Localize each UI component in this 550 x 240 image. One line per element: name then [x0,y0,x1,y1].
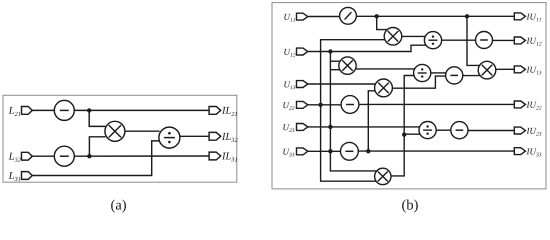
wire U33 to negate4 [308,150,341,152]
caption (a) [111,199,126,212]
divider U-b6 [414,64,431,81]
wire branch to multiplier2 in2 [330,69,339,71]
node A2 junction [87,154,91,158]
multiplier U-b9 [375,79,393,97]
wire subtractor1 out to multiplier4 in2 [463,75,480,77]
wire U13 to multiplier3 in1 [308,83,376,85]
multiplier U-a3 [105,121,125,141]
label IU23 [526,128,541,136]
port U11 [297,13,308,20]
label L21 [9,107,21,116]
port IU13 [514,66,525,73]
subtractor U-b7 [446,67,463,84]
wire negate3 out to IU23 [468,130,514,132]
port U12 [297,48,308,55]
multiplier U-b5 [339,57,356,74]
wire divider3 out to negate3 [436,129,451,131]
node B2 junction [465,14,469,18]
node B3 junction [328,49,332,53]
wire divider out to IL32 [180,135,209,137]
wire U22 riser to bottom multiplier in2 [321,105,377,181]
port L32 [22,152,33,160]
label U13 [284,81,295,89]
port IU12 [514,37,525,44]
label U23 [283,124,294,132]
port IU23 [514,127,525,134]
negate U-b12 [451,122,468,139]
divider U-b3 [424,32,441,49]
wire multiplier out to divider in1 [125,130,160,132]
node B6 junction [328,125,332,129]
wire U22 riser to multiplier1 in2 [321,40,385,105]
multiplier U-b8 [478,61,496,79]
node B4 junction [402,132,406,136]
port IL31 [209,152,221,160]
wire negate2 out to IU22 [359,103,514,105]
label U11 [284,14,295,22]
wire negate4 out to IU33 [358,150,514,152]
wire node B4 to divider3 in2 [404,133,420,135]
wire multiplier3 out step to subtractor1 in2 [392,76,446,88]
wire multiplier1 out to divider1 in1 [402,35,426,37]
port L21 [22,107,33,115]
port IU11 [514,13,525,20]
wire node B1 down to multiplier1 in1 [377,16,388,29]
subtractor U-a1 [54,100,74,120]
panel (b) frame [272,3,546,189]
wire negate1 out to IU12 [493,39,515,41]
negate U-b10 [341,96,359,114]
wire U33 riser to multiplier3 in2 [368,91,375,152]
node B5 junction [318,103,322,107]
wire reciprocal out to IU11 [356,15,514,17]
reciprocal U-b1 [340,7,357,24]
label L32 [9,153,21,162]
label U12 [284,49,295,57]
label L31 [9,172,21,181]
label U22 [283,102,294,110]
wire U23 to divider3 in1 [308,126,420,128]
wire L31 up to divider in2 [32,141,160,176]
port IU33 [514,148,525,155]
port U33 [297,148,308,155]
label IU13 [526,67,541,75]
label IU22 [526,102,541,110]
port L31 [22,172,33,180]
divider U-a4 [159,127,180,148]
wire divider2 out to subtractor1 in1 [431,72,446,74]
label IU11 [526,14,540,22]
wire U12 to divider1 in2 [308,45,426,51]
port IL21 [209,107,221,115]
wire U12 node riser down to bottom multiplier in1 [330,52,376,171]
node B8 junction [366,149,370,153]
wire node A2 up to multiplier in2 [89,137,105,156]
wire multiplier2 out to divider2 in1 [356,68,415,70]
label IL21 [222,107,237,116]
wire U11 to reciprocal [308,16,340,18]
negate U-b13 [341,142,359,160]
panel (a) frame [3,95,237,182]
wire multiplier4 out to IU13 [496,68,515,70]
port IU22 [514,101,525,108]
node B7 junction [328,149,332,153]
divider U-b11 [419,122,436,139]
wire L21 to minus [32,109,54,111]
negate U-b4 [476,32,493,49]
subtractor U-a2 [54,146,74,166]
label IL31 [222,153,237,162]
wire minus to IL31 [74,155,209,157]
multiplier U-b2 [384,28,402,46]
wire node B2 down to multiplier4 in1 [467,16,480,65]
caption (b) [402,199,418,212]
wire riser to divider2 in2 [404,76,414,135]
wire minus to IL21 [74,109,209,111]
label IL32 [222,133,238,142]
wire divider1 out to negate1 [442,39,476,41]
node B1 junction [375,14,379,18]
wire U22 to negate2 [308,104,341,106]
wire L32 to minus [32,155,54,157]
wire branch to multiplier2 in1 [330,60,340,62]
node A1 junction [87,108,91,112]
wire node A1 down to multiplier in1 [89,110,105,126]
label U33 [283,149,294,157]
label IU33 [526,149,541,157]
port U22 [297,101,308,108]
port IL32 [209,132,221,140]
wire bottom multiplier out riser to node B4 [391,135,404,176]
port U13 [297,81,308,88]
port U23 [297,124,308,131]
multiplier U-b14 [375,168,391,184]
label IU12 [526,38,541,46]
